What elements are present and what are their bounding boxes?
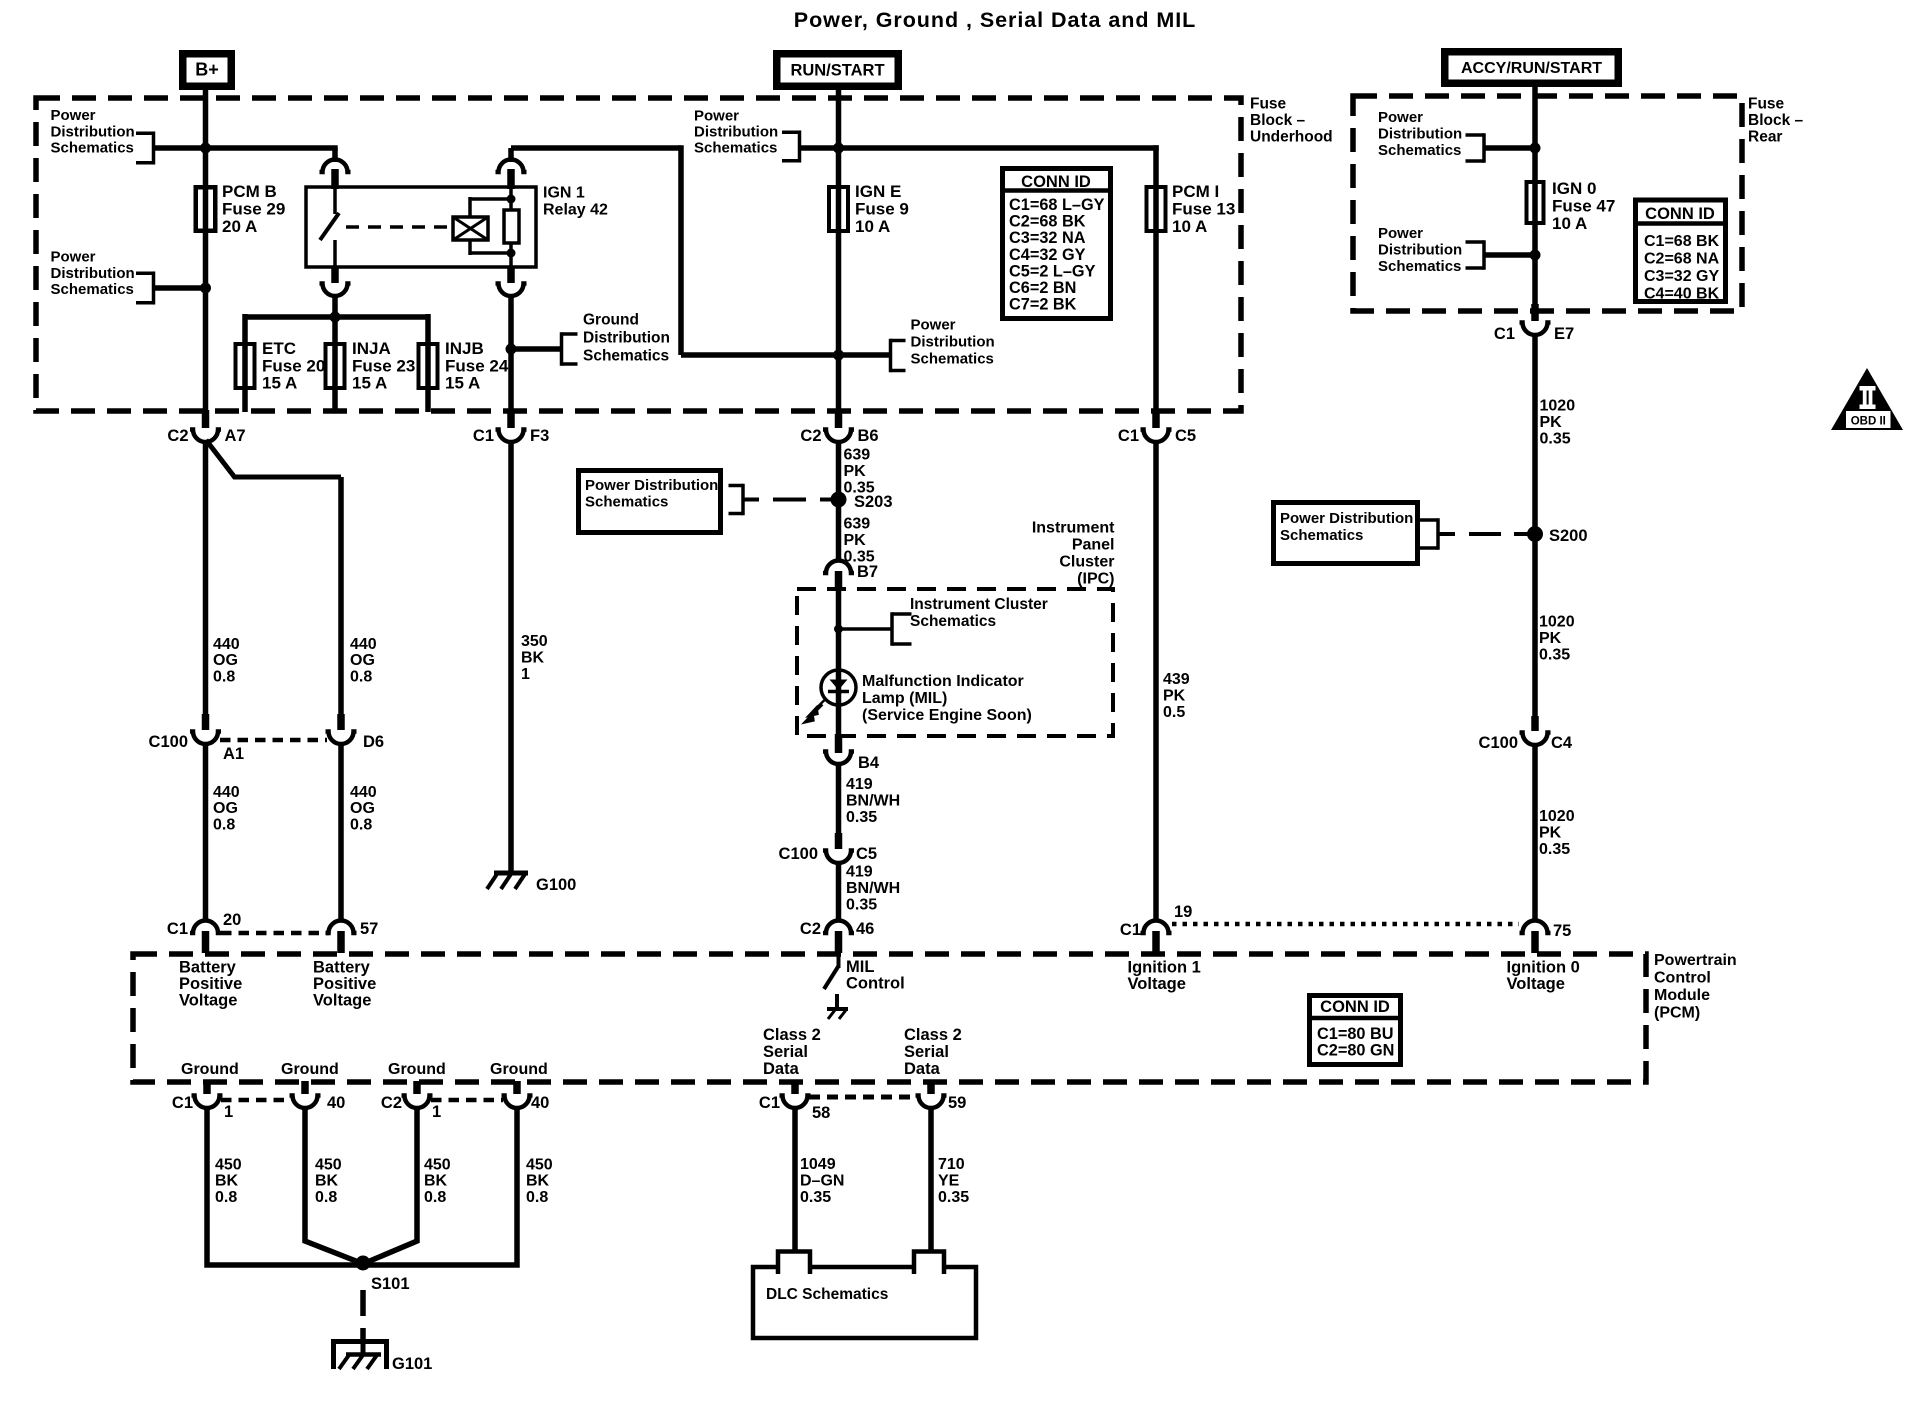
connector relay pin 85 bottom bbox=[496, 284, 527, 297]
node relay junction top bbox=[507, 195, 516, 204]
wire fuse 9 to B6 bbox=[836, 231, 842, 420]
svg-text:0.8: 0.8 bbox=[213, 668, 235, 685]
wire B4 to C5 bbox=[836, 764, 842, 841]
svg-text:Positive: Positive bbox=[313, 975, 376, 993]
node B+ terminal bbox=[183, 54, 232, 87]
svg-text:Distribution: Distribution bbox=[1378, 126, 1462, 143]
svg-text:1020: 1020 bbox=[1540, 398, 1576, 415]
svg-text:15 A: 15 A bbox=[445, 374, 480, 393]
pin stub D6 bbox=[337, 714, 345, 730]
pin stub relay top right bbox=[507, 169, 515, 189]
fuse F29 PCM B bbox=[196, 187, 216, 231]
lamp MIL arrows bbox=[805, 698, 827, 723]
svg-text:Control: Control bbox=[1654, 970, 1711, 987]
svg-text:D–GN: D–GN bbox=[800, 1173, 844, 1190]
svg-text:Schematics: Schematics bbox=[51, 281, 134, 298]
power distribution schematics box S200 bbox=[1274, 503, 1418, 564]
relay branch wire top bbox=[509, 188, 513, 210]
svg-text:Instrument: Instrument bbox=[1032, 520, 1115, 537]
svg-text:10 A: 10 A bbox=[855, 217, 890, 236]
svg-text:639: 639 bbox=[844, 516, 871, 533]
bracket ref S200 bbox=[1420, 518, 1438, 522]
pin stub pcm bottom x305 bbox=[301, 1081, 309, 1094]
svg-text:Power: Power bbox=[911, 317, 956, 334]
svg-text:A7: A7 bbox=[225, 427, 246, 445]
svg-text:Distribution: Distribution bbox=[694, 124, 778, 141]
connector 75 bbox=[1520, 921, 1551, 934]
svg-text:Schematics: Schematics bbox=[694, 140, 777, 157]
svg-text:58: 58 bbox=[812, 1104, 830, 1122]
svg-text:Distribution: Distribution bbox=[51, 265, 135, 282]
pin stub 19 bbox=[1152, 931, 1160, 953]
wire B+ to fuse 29 bbox=[203, 90, 209, 233]
svg-text:46: 46 bbox=[856, 920, 874, 938]
svg-text:75: 75 bbox=[1553, 922, 1571, 940]
svg-text:Ground: Ground bbox=[281, 1061, 339, 1078]
connector pcm bottom x517 bbox=[502, 1096, 533, 1109]
svg-text:S203: S203 bbox=[854, 493, 893, 511]
wire to cluster bracket bbox=[839, 627, 893, 631]
svg-text:G101: G101 bbox=[392, 1355, 432, 1373]
node S200 bbox=[1527, 526, 1543, 542]
svg-text:10 A: 10 A bbox=[1552, 214, 1587, 233]
connector C100/C5 inline bbox=[823, 851, 854, 864]
svg-text:Distribution: Distribution bbox=[583, 330, 670, 347]
svg-text:C1=68 L–GY: C1=68 L–GY bbox=[1009, 196, 1105, 214]
svg-text:C1: C1 bbox=[1120, 921, 1141, 939]
wire D6 to 57 bbox=[338, 744, 344, 921]
svg-text:C1: C1 bbox=[172, 1094, 193, 1112]
node junction ground dist bbox=[506, 344, 517, 355]
fuse block rear box bbox=[1353, 96, 1742, 311]
svg-text:Fuse 9: Fuse 9 bbox=[855, 200, 909, 219]
wire ground 4 bbox=[366, 1107, 517, 1265]
node S101 splice bbox=[356, 1256, 371, 1271]
svg-text:A1: A1 bbox=[223, 745, 244, 763]
svg-text:40: 40 bbox=[327, 1094, 345, 1112]
svg-text:20: 20 bbox=[223, 911, 241, 929]
power distribution schematics box S203 bbox=[579, 471, 721, 533]
svg-text:Fuse 47: Fuse 47 bbox=[1552, 197, 1615, 216]
svg-text:Fuse: Fuse bbox=[1250, 96, 1287, 113]
wire ground 2 bbox=[305, 1107, 361, 1263]
connector relay pin 86 top bbox=[496, 159, 527, 172]
pin stub pcm bottom x207 bbox=[203, 1081, 211, 1094]
svg-text:0.5: 0.5 bbox=[1163, 704, 1185, 721]
wire ground 1 bbox=[207, 1107, 360, 1265]
svg-text:0.35: 0.35 bbox=[800, 1189, 831, 1206]
svg-text:BK: BK bbox=[215, 1173, 239, 1190]
svg-text:Voltage: Voltage bbox=[313, 991, 371, 1009]
svg-text:C2: C2 bbox=[800, 920, 821, 938]
ground G101 bbox=[334, 1342, 387, 1370]
wire relay switch drop bbox=[332, 148, 338, 162]
svg-text:0.8: 0.8 bbox=[526, 1189, 548, 1206]
svg-text:Data: Data bbox=[904, 1060, 941, 1078]
svg-text:Schematics: Schematics bbox=[1378, 258, 1461, 275]
svg-text:440: 440 bbox=[350, 636, 377, 653]
svg-text:ETC: ETC bbox=[262, 339, 296, 358]
wire bracket 5 to wire bbox=[1484, 145, 1535, 151]
svg-text:PCM I: PCM I bbox=[1172, 182, 1219, 201]
svg-text:1049: 1049 bbox=[800, 1156, 836, 1173]
svg-text:C4=40 BK: C4=40 BK bbox=[1644, 286, 1720, 303]
connector B4 bbox=[823, 752, 854, 765]
svg-text:C100: C100 bbox=[779, 845, 818, 863]
connector C1/C5 bbox=[1141, 430, 1172, 443]
svg-text:Schematics: Schematics bbox=[583, 348, 669, 365]
svg-text:BK: BK bbox=[526, 1173, 550, 1190]
svg-text:Schematics: Schematics bbox=[1378, 142, 1461, 159]
connector pcm bottom x795 bbox=[780, 1096, 811, 1109]
svg-text:Fuse 29: Fuse 29 bbox=[222, 200, 285, 219]
svg-text:B6: B6 bbox=[858, 427, 879, 445]
wire relay out to rail bbox=[332, 295, 338, 320]
connector C1/19 bbox=[1141, 921, 1172, 934]
wire fuse 24 out bbox=[425, 390, 431, 412]
fuse block underhood box bbox=[36, 98, 1241, 411]
wire coil feed to bracket bbox=[839, 352, 892, 358]
svg-text:C5=2 L–GY: C5=2 L–GY bbox=[1009, 262, 1096, 280]
connector C1/E7 bbox=[1520, 323, 1551, 336]
svg-text:15 A: 15 A bbox=[262, 374, 297, 393]
connector pcm bottom x305 bbox=[290, 1096, 321, 1109]
connector C2/A7 bbox=[190, 430, 221, 443]
svg-text:57: 57 bbox=[360, 920, 378, 938]
svg-text:Power, Ground , Serial Data an: Power, Ground , Serial Data and MIL bbox=[794, 8, 1196, 32]
svg-text:450: 450 bbox=[526, 1157, 553, 1174]
wire dotted 19-75 bbox=[1172, 922, 1519, 927]
svg-text:Ground: Ground bbox=[490, 1061, 548, 1078]
svg-text:Class 2: Class 2 bbox=[763, 1026, 821, 1044]
svg-text:C2: C2 bbox=[381, 1094, 402, 1112]
svg-text:Serial: Serial bbox=[763, 1043, 808, 1061]
connector pcm bottom x207 bbox=[192, 1096, 223, 1109]
svg-text:Panel: Panel bbox=[1072, 537, 1115, 554]
relay resistor bbox=[504, 210, 519, 243]
wire dashed ref to S203 bbox=[773, 498, 806, 502]
svg-text:C2=68 BK: C2=68 BK bbox=[1009, 213, 1086, 231]
conn id table rear bbox=[1636, 200, 1726, 302]
pin stub relay bottom right bbox=[507, 266, 515, 283]
svg-text:1020: 1020 bbox=[1539, 614, 1575, 631]
svg-text:BK: BK bbox=[521, 650, 545, 667]
svg-text:Voltage: Voltage bbox=[1128, 975, 1186, 993]
wire PCM I drop bbox=[1153, 145, 1159, 231]
svg-text:Distribution: Distribution bbox=[51, 123, 135, 140]
pin terminal DLC 1 bbox=[778, 1252, 810, 1275]
node junction ACCY 2 bbox=[1530, 250, 1541, 261]
wire rail to fuse 20 bbox=[242, 314, 248, 390]
svg-text:19: 19 bbox=[1174, 903, 1192, 921]
svg-text:C1=80 BU: C1=80 BU bbox=[1317, 1025, 1393, 1043]
fuse F20 ETC bbox=[236, 344, 255, 388]
svg-text:Power: Power bbox=[1378, 225, 1423, 242]
svg-text:ACCY/RUN/START: ACCY/RUN/START bbox=[1461, 60, 1602, 77]
svg-text:PK: PK bbox=[1163, 688, 1186, 705]
connector C1/F3 bbox=[496, 430, 527, 443]
svg-text:Voltage: Voltage bbox=[1507, 975, 1565, 993]
pin stub 57 bbox=[337, 931, 345, 953]
node RUN/START terminal bbox=[777, 54, 899, 87]
pin stub B7 bbox=[835, 571, 843, 590]
svg-text:Schematics: Schematics bbox=[1280, 527, 1363, 544]
svg-text:0.8: 0.8 bbox=[315, 1189, 337, 1206]
node junction fuse rail bbox=[330, 312, 341, 323]
pin stub 46 bbox=[835, 931, 843, 953]
wire dotted 58-59 bbox=[809, 1095, 917, 1100]
pin stub A1 bbox=[202, 714, 210, 730]
svg-text:C1: C1 bbox=[167, 920, 188, 938]
svg-text:OG: OG bbox=[213, 652, 238, 669]
MIL control driver switch bbox=[837, 954, 841, 968]
relay branch wire bottom bbox=[509, 243, 513, 267]
lamp MIL indicator bbox=[821, 670, 856, 705]
fuse F13 PCM I bbox=[1147, 187, 1166, 231]
node junction B+ rail bbox=[200, 143, 211, 154]
svg-text:C1=68 BK: C1=68 BK bbox=[1644, 233, 1720, 250]
svg-text:C5: C5 bbox=[1175, 427, 1196, 445]
pin stub C5 inline bbox=[835, 833, 843, 849]
svg-text:Schematics: Schematics bbox=[911, 351, 994, 368]
svg-text:419: 419 bbox=[846, 864, 873, 881]
wire 440 OG left bbox=[203, 440, 209, 721]
svg-text:IGN 1: IGN 1 bbox=[543, 185, 585, 202]
svg-text:OG: OG bbox=[213, 800, 238, 817]
svg-text:Battery: Battery bbox=[313, 959, 371, 977]
svg-text:IGN E: IGN E bbox=[855, 182, 901, 201]
wire C4 to 75 bbox=[1532, 745, 1538, 921]
svg-text:1020: 1020 bbox=[1539, 808, 1575, 825]
svg-text:Schematics: Schematics bbox=[51, 140, 134, 157]
PCM box bbox=[133, 954, 1646, 1082]
svg-text:S200: S200 bbox=[1549, 527, 1588, 545]
svg-text:C4=32 GY: C4=32 GY bbox=[1009, 246, 1086, 264]
svg-text:C7=2 BK: C7=2 BK bbox=[1009, 296, 1077, 314]
wire ACCY drop bbox=[1532, 87, 1538, 225]
svg-text:C2: C2 bbox=[800, 427, 821, 445]
pin stub B4 bbox=[835, 734, 843, 753]
svg-text:INJA: INJA bbox=[352, 339, 391, 358]
svg-text:C100: C100 bbox=[149, 733, 188, 751]
svg-text:439: 439 bbox=[1163, 671, 1190, 688]
svg-text:PK: PK bbox=[844, 532, 867, 549]
svg-text:BK: BK bbox=[424, 1173, 448, 1190]
svg-text:Ignition 1: Ignition 1 bbox=[1128, 959, 1201, 977]
wire inline dash 1-40 b bbox=[431, 1098, 503, 1103]
pin stub C5 bbox=[1152, 410, 1160, 428]
svg-text:C100: C100 bbox=[1479, 734, 1518, 752]
pin terminal DLC 2 bbox=[914, 1252, 944, 1275]
svg-text:Voltage: Voltage bbox=[179, 991, 237, 1009]
connector C1/20 bbox=[190, 921, 221, 934]
fuse F47 IGN 0 bbox=[1527, 182, 1544, 223]
svg-text:0.35: 0.35 bbox=[1540, 431, 1571, 448]
relay switch blade bbox=[320, 213, 339, 240]
wire bracket 2 to wire bbox=[154, 285, 206, 291]
svg-text:E7: E7 bbox=[1554, 325, 1574, 343]
svg-text:440: 440 bbox=[213, 636, 240, 653]
svg-text:450: 450 bbox=[315, 1157, 342, 1174]
svg-text:Serial: Serial bbox=[904, 1043, 949, 1061]
connector C100/C4 bbox=[1520, 733, 1551, 746]
svg-text:CONN ID: CONN ID bbox=[1645, 205, 1715, 223]
wire to ground dist bracket bbox=[511, 346, 562, 352]
svg-text:1: 1 bbox=[432, 1103, 441, 1121]
node junction IPC feed bbox=[834, 625, 843, 634]
wire fuse 20 out bbox=[242, 390, 248, 412]
svg-text:B4: B4 bbox=[858, 754, 880, 772]
svg-text:Relay 42: Relay 42 bbox=[543, 202, 608, 219]
svg-text:S101: S101 bbox=[371, 1275, 410, 1293]
wire S203 to B7 bbox=[836, 500, 842, 561]
svg-text:440: 440 bbox=[213, 784, 240, 801]
svg-text:40: 40 bbox=[531, 1094, 549, 1112]
svg-text:B7: B7 bbox=[857, 563, 878, 581]
svg-text:Control: Control bbox=[846, 974, 905, 992]
svg-text:G100: G100 bbox=[536, 876, 576, 894]
svg-text:Fuse 24: Fuse 24 bbox=[445, 356, 509, 375]
bracket ref 3 bbox=[782, 130, 800, 134]
svg-text:Cluster: Cluster bbox=[1059, 554, 1114, 571]
relay U42 IGN 1 box bbox=[306, 187, 536, 267]
svg-text:CONN ID: CONN ID bbox=[1021, 173, 1091, 191]
svg-text:D6: D6 bbox=[363, 733, 384, 751]
wire 710 YE bbox=[928, 1107, 934, 1252]
svg-text:OG: OG bbox=[350, 652, 375, 669]
wire fuse 47 down bbox=[1532, 225, 1538, 306]
pin stub pcm bottom x795 bbox=[791, 1081, 799, 1094]
svg-text:Fuse 23: Fuse 23 bbox=[352, 356, 415, 375]
wire rail to PCM I fuse bbox=[839, 145, 1159, 151]
wire bracket to relay bbox=[154, 145, 338, 151]
fuse F23 INJA bbox=[326, 344, 345, 388]
svg-text:DLC Schematics: DLC Schematics bbox=[766, 1286, 888, 1303]
svg-text:(Service Engine Soon): (Service Engine Soon) bbox=[862, 707, 1032, 724]
wire E7 to S200 bbox=[1532, 335, 1538, 534]
svg-text:C2=80 GN: C2=80 GN bbox=[1317, 1042, 1394, 1060]
pin stub pcm bottom x931 bbox=[927, 1081, 935, 1094]
conn id table PCM bbox=[1310, 996, 1401, 1065]
bracket ref 2 bbox=[136, 271, 154, 275]
pin stub 75 bbox=[1531, 931, 1539, 953]
svg-text:RUN/START: RUN/START bbox=[790, 62, 884, 80]
svg-text:C3=32 GY: C3=32 GY bbox=[1644, 268, 1719, 285]
svg-text:Data: Data bbox=[763, 1060, 800, 1078]
svg-text:Power: Power bbox=[694, 108, 739, 125]
wire fuse 13 to C5 bbox=[1153, 231, 1159, 420]
svg-text:Ignition 0: Ignition 0 bbox=[1507, 959, 1580, 977]
svg-text:C5: C5 bbox=[856, 845, 877, 863]
svg-text:1: 1 bbox=[224, 1103, 233, 1121]
wire fuse rail bbox=[245, 314, 428, 320]
pin stub pcm bottom x417 bbox=[413, 1081, 421, 1094]
svg-text:C1: C1 bbox=[759, 1094, 780, 1112]
pin stub F3 bbox=[507, 410, 515, 428]
relay switch lower contact bbox=[333, 240, 337, 267]
wire rail to fuse 23 bbox=[332, 317, 338, 390]
svg-text:Underhood: Underhood bbox=[1250, 129, 1333, 146]
svg-text:Distribution: Distribution bbox=[911, 334, 995, 351]
svg-text:0.8: 0.8 bbox=[215, 1189, 237, 1206]
wire C5 to 19 bbox=[1153, 440, 1159, 921]
pin stub relay top left bbox=[331, 169, 339, 189]
wire bracket 3 to rail bbox=[798, 145, 839, 151]
svg-text:C2=68 NA: C2=68 NA bbox=[1644, 251, 1720, 268]
node S203 bbox=[831, 492, 847, 508]
svg-text:Block –: Block – bbox=[1250, 112, 1306, 129]
svg-text:0.8: 0.8 bbox=[350, 816, 372, 833]
wire inline dash 1-40 a bbox=[221, 1098, 291, 1103]
conn id table underhood bbox=[1003, 169, 1111, 319]
relay switch fixed contact bbox=[333, 188, 337, 214]
bracket ref 4 bbox=[891, 339, 906, 343]
wire relay coil feed bbox=[511, 145, 681, 151]
svg-text:59: 59 bbox=[948, 1094, 966, 1112]
svg-text:C4: C4 bbox=[1551, 734, 1573, 752]
wire relay coil feed drop bbox=[678, 145, 684, 355]
connector pcm bottom x931 bbox=[916, 1096, 947, 1109]
svg-text:0.35: 0.35 bbox=[846, 809, 877, 826]
pin stub C4 bbox=[1531, 716, 1539, 731]
svg-text:10 A: 10 A bbox=[1172, 217, 1207, 236]
pin stub A7 bbox=[202, 410, 210, 428]
svg-text:INJB: INJB bbox=[445, 339, 484, 358]
svg-text:(IPC): (IPC) bbox=[1077, 571, 1114, 588]
wire RUN/START drop bbox=[836, 90, 842, 231]
relay coil X-box bbox=[453, 217, 488, 240]
svg-text:C2: C2 bbox=[167, 427, 188, 445]
connector C2/B6 bbox=[823, 430, 854, 443]
svg-text:Ground: Ground bbox=[388, 1061, 446, 1078]
wire relay coil drop bbox=[508, 148, 514, 162]
svg-text:Module: Module bbox=[1654, 987, 1710, 1004]
svg-text:419: 419 bbox=[846, 776, 873, 793]
svg-text:Fuse 20: Fuse 20 bbox=[262, 356, 325, 375]
connector C100/D6 bbox=[326, 732, 357, 745]
svg-text:450: 450 bbox=[215, 1157, 242, 1174]
svg-text:Powertrain: Powertrain bbox=[1654, 952, 1737, 969]
svg-text:(PCM): (PCM) bbox=[1654, 1005, 1700, 1022]
wire 440 OG right bbox=[338, 477, 344, 721]
connector B7 bbox=[823, 561, 854, 574]
fuse F9 IGN E bbox=[829, 187, 848, 231]
svg-text:Schematics: Schematics bbox=[910, 613, 996, 630]
svg-text:Instrument Cluster: Instrument Cluster bbox=[910, 596, 1048, 613]
wire A1 to 20 bbox=[203, 744, 209, 921]
svg-text:C6=2 BN: C6=2 BN bbox=[1009, 279, 1076, 297]
wire rail to fuse 24 bbox=[425, 314, 431, 390]
wire relay 85 to F3 bbox=[508, 295, 514, 420]
svg-text:0.35: 0.35 bbox=[1539, 647, 1570, 664]
wire fuse 23 out bbox=[332, 390, 338, 412]
node junction coil feed bbox=[833, 350, 844, 361]
svg-text:440: 440 bbox=[350, 784, 377, 801]
svg-text:Rear: Rear bbox=[1748, 129, 1782, 146]
svg-text:Lamp (MIL): Lamp (MIL) bbox=[862, 690, 947, 707]
wire inline connector dash A1-D6 bbox=[220, 738, 327, 743]
svg-text:Class 2: Class 2 bbox=[904, 1026, 962, 1044]
svg-text:Battery: Battery bbox=[179, 959, 237, 977]
wire inline connector dash 20-57 bbox=[221, 931, 329, 936]
svg-text:C1: C1 bbox=[473, 427, 494, 445]
wire S200 down bbox=[1532, 534, 1538, 718]
svg-text:0.8: 0.8 bbox=[350, 668, 372, 685]
node relay junction bottom bbox=[507, 249, 516, 258]
svg-text:0.35: 0.35 bbox=[938, 1189, 969, 1206]
node junction S-B+2 bbox=[200, 283, 211, 294]
wire 350 BK bbox=[508, 440, 514, 871]
